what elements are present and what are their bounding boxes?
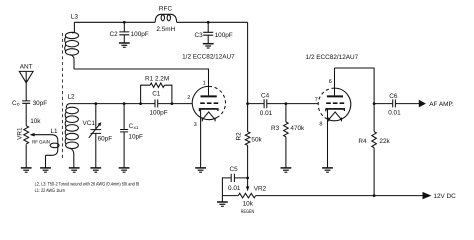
potentiometer VR1 — [24, 126, 29, 144]
ground V1 cathode — [195, 168, 206, 172]
svg-text:100pF: 100pF — [215, 32, 233, 39]
svg-text:REGEN: REGEN — [241, 209, 255, 215]
VR2 label REGEN — [241, 209, 255, 215]
ground C5 — [217, 202, 228, 206]
toroid core dashed line — [62, 33, 64, 159]
svg-text:C4: C4 — [261, 93, 270, 100]
variable capacitor VC1 label — [83, 120, 96, 127]
wire L1 to ground — [45, 155, 47, 167]
AF AMP label — [429, 101, 454, 108]
capacitor C4 — [264, 99, 267, 108]
svg-text:12V DC: 12V DC — [433, 193, 456, 200]
wire antenna to C0 — [25, 83, 27, 101]
wire R4 junction down — [373, 104, 375, 132]
tube V1 grid — [200, 102, 218, 104]
RFC value 2.5mH — [156, 26, 175, 33]
svg-text:L2, L3: T50-2 Toroid wound wit: L2, L3: T50-2 Toroid wound with 26 AWG (… — [35, 182, 140, 188]
ground Cx — [119, 168, 130, 172]
C4 value 0.01 — [260, 110, 273, 117]
node Cx junction — [123, 102, 126, 105]
VR2 wiper arrow — [246, 178, 249, 192]
svg-text:L2: L2 — [67, 93, 75, 100]
capacitor Cx label — [129, 123, 139, 130]
resistor R3 — [284, 122, 289, 137]
wire C3 junction down — [207, 22, 209, 32]
svg-text:R2: R2 — [236, 132, 243, 141]
C3 value 100pF — [215, 32, 233, 39]
svg-text:C3: C3 — [195, 32, 204, 39]
svg-text:3: 3 — [194, 122, 197, 128]
wire C2 to ground — [123, 35, 125, 43]
inductor L1 label — [50, 128, 58, 135]
wire top rail corner down to C4 node — [247, 22, 249, 103]
node C4 junction at corner — [246, 102, 249, 105]
svg-text:7: 7 — [315, 97, 318, 103]
svg-text:R4: R4 — [358, 138, 367, 145]
C5 value 0.01 — [228, 185, 241, 192]
svg-text:100pF: 100pF — [131, 31, 149, 38]
node R3 junction — [285, 102, 288, 105]
svg-text:AF AMP.: AF AMP. — [429, 101, 454, 108]
svg-text:8: 8 — [319, 122, 322, 128]
svg-text:C1: C1 — [152, 90, 161, 97]
inductor RFC — [155, 14, 176, 22]
svg-text:0.01: 0.01 — [228, 185, 241, 192]
AF AMP output arrow — [419, 100, 426, 108]
svg-text:60pF: 60pF — [98, 135, 113, 142]
svg-text:1: 1 — [203, 81, 206, 87]
pin 3 — [194, 122, 197, 128]
wire bottom rail — [256, 195, 423, 197]
C1 value 100pF — [150, 109, 168, 116]
svg-text:10k: 10k — [243, 200, 254, 207]
svg-text:VC1: VC1 — [83, 120, 96, 127]
wire V2 plate to R4 rail — [335, 68, 375, 104]
capacitor C2 — [119, 32, 129, 35]
svg-text:RFC: RFC — [159, 6, 173, 13]
wire Cx junction down — [123, 104, 125, 130]
inductor L1 — [46, 135, 60, 156]
12V DC input arrow — [423, 192, 432, 199]
svg-text:100pF: 100pF — [150, 109, 168, 116]
wire VR2 left end — [222, 195, 238, 197]
ground VR1 — [21, 168, 32, 172]
node bottom rail junction — [373, 194, 376, 197]
svg-text:L3: L3 — [71, 14, 79, 21]
tube V2 grid — [326, 102, 344, 104]
pin 8 — [319, 122, 322, 128]
ground C3 — [203, 44, 214, 48]
svg-text:0.01: 0.01 — [260, 110, 273, 117]
svg-text:VR1: VR1 — [17, 127, 24, 140]
ground VC1 — [90, 168, 101, 172]
wire V2 cathode to ground — [327, 110, 329, 168]
node VC1 junction — [94, 102, 97, 105]
wire L2 top to grid line — [70, 103, 193, 105]
wire C0 to VR1 — [25, 103, 27, 125]
wire C6 junction to C6 — [374, 103, 392, 105]
C2 value 100pF — [131, 31, 149, 38]
tube V1 plate — [201, 87, 217, 96]
svg-text:6: 6 — [329, 79, 332, 85]
ground L2 — [69, 168, 80, 172]
wire L3 bottom to plate line — [73, 59, 75, 69]
note L2 L3 winding — [35, 182, 140, 188]
wire Cx to ground — [123, 132, 125, 167]
svg-text:C2: C2 — [110, 31, 119, 38]
svg-text:o: o — [17, 102, 20, 107]
svg-text:L1: L1 — [50, 128, 58, 135]
svg-text:R1 2.2M: R1 2.2M — [145, 75, 169, 82]
wire VR1 bottom to ground — [25, 144, 27, 167]
capacitor C3 label — [195, 32, 204, 39]
R4 value 22k — [379, 138, 390, 145]
svg-text:50k: 50k — [251, 136, 262, 143]
ground V2 cathode — [322, 168, 333, 172]
svg-text:470k: 470k — [290, 125, 305, 132]
wire VR1 wiper to L1 — [34, 134, 51, 136]
capacitor C0 label — [12, 100, 20, 107]
svg-text:10k: 10k — [30, 118, 41, 125]
svg-text:R3: R3 — [271, 125, 280, 132]
svg-text:C6: C6 — [389, 93, 398, 100]
svg-text:ANT: ANT — [20, 63, 33, 70]
pin 6 — [329, 79, 332, 85]
ground L1 — [40, 168, 51, 172]
capacitor C1 label — [152, 90, 161, 97]
note L1 winding — [35, 188, 65, 194]
pin 1 — [203, 81, 206, 87]
resistor R3 label — [271, 125, 280, 132]
wire R3 to ground — [285, 137, 287, 168]
antenna ANT label — [20, 63, 33, 70]
tube V2 plate — [327, 68, 343, 96]
R3 value 470k — [290, 125, 305, 132]
svg-text:2.5mH: 2.5mH — [156, 26, 175, 33]
R2 value 50k — [251, 136, 262, 143]
tube V1 cathode — [199, 109, 218, 122]
wire C6 to AF AMP arrow — [396, 103, 419, 105]
node R1 left junction — [139, 102, 142, 105]
svg-text:L1: 22 AWG 1turn: L1: 22 AWG 1turn — [35, 188, 65, 194]
node C6 junction — [373, 102, 376, 105]
wire C5 left to ground — [222, 178, 247, 202]
tube U1 label 1/2 ECC82/12AU7 — [182, 53, 235, 60]
inductor RFC label — [159, 6, 173, 13]
VR1 wiper arrow — [30, 133, 35, 137]
wire top rail L3 to RFC — [74, 21, 155, 23]
wire R3 junction down — [285, 104, 287, 122]
capacitor C4 label — [261, 93, 270, 100]
wire V1 cathode to ground — [200, 110, 202, 168]
capacitor C1 — [155, 99, 158, 107]
VR1 label RF GAIN — [32, 139, 50, 145]
pin 2 — [187, 95, 190, 101]
capacitor C5 label — [230, 166, 239, 173]
svg-text:10pF: 10pF — [128, 133, 143, 140]
potentiometer VR1 value 10k — [30, 118, 41, 125]
inductor L2 — [65, 104, 78, 154]
wire L2 bottom to ground — [73, 154, 75, 168]
pin 7 — [315, 97, 318, 103]
wire corner to C4 — [248, 103, 264, 105]
tube V2 cathode — [326, 109, 345, 122]
tube U2 label 1/2 ECC82/12AU7 — [306, 54, 359, 61]
svg-text:1/2 ECC82/12AU7: 1/2 ECC82/12AU7 — [306, 54, 359, 61]
svg-text:VR2: VR2 — [254, 185, 267, 192]
VC1 value 60pF — [98, 135, 113, 142]
wire plate line L3 to tube V1 — [74, 69, 209, 87]
node R1 right junction — [171, 102, 174, 105]
node C3 junction — [207, 21, 210, 24]
node C5 junction — [246, 177, 249, 180]
svg-text:x1: x1 — [134, 125, 139, 130]
capacitor C6 — [393, 99, 396, 107]
svg-text:1/2 ECC82/12AU7: 1/2 ECC82/12AU7 — [182, 53, 235, 60]
resistor R2 label — [236, 132, 243, 141]
svg-text:C5: C5 — [230, 166, 239, 173]
resistor R2 — [245, 104, 250, 146]
potentiometer VR2 label — [254, 185, 267, 192]
svg-text:22k: 22k — [379, 138, 390, 145]
variable capacitor VC1 — [91, 130, 102, 134]
antenna symbol — [19, 71, 33, 82]
node C2 junction — [123, 21, 126, 24]
wire C3 to ground — [207, 35, 209, 43]
potentiometer VR1 label — [17, 127, 24, 140]
wire RFC to corner — [177, 21, 248, 23]
capacitor C6 label — [389, 93, 398, 100]
C0 value 30pF — [33, 100, 48, 107]
wire C4 to tube V2 grid — [267, 103, 318, 105]
inductor L2 label — [67, 93, 75, 100]
tube V1 envelope — [192, 86, 225, 119]
capacitor C5 — [231, 174, 234, 182]
inductor L3 — [65, 22, 79, 59]
capacitor C2 label — [110, 31, 119, 38]
svg-text:30pF: 30pF — [33, 100, 48, 107]
ground R3 — [281, 168, 292, 172]
ground C2 — [119, 43, 130, 47]
wire R4 to bottom rail — [373, 148, 375, 196]
wire R2 to wiper node — [247, 145, 249, 178]
potentiometer VR2 — [238, 193, 255, 198]
Cx value 10pF — [128, 133, 143, 140]
capacitor Cx — [120, 130, 128, 132]
svg-text:RF GAIN: RF GAIN — [32, 139, 50, 145]
12V DC label — [433, 193, 456, 200]
resistor R1 label — [145, 75, 169, 82]
capacitor C0 — [22, 101, 30, 103]
VC1 arrow — [89, 122, 102, 138]
tube V2 envelope — [318, 88, 351, 121]
VR2 value 10k — [243, 200, 254, 207]
capacitor C3 — [203, 32, 213, 35]
wire C2 junction down — [123, 22, 125, 31]
resistor R4 — [372, 132, 377, 148]
wire VC1 junction down — [95, 104, 97, 130]
svg-text:0.01: 0.01 — [388, 109, 401, 116]
wire VC1 to ground — [95, 134, 97, 168]
svg-text:2: 2 — [187, 95, 190, 101]
inductor L3 label — [71, 14, 79, 21]
resistor R1 branch — [141, 83, 172, 104]
resistor R4 label — [358, 138, 367, 145]
C6 value 0.01 — [388, 109, 401, 116]
